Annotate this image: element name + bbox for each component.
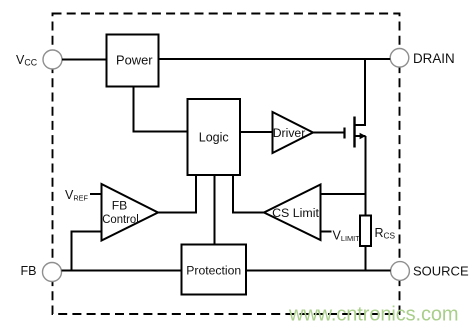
transistor Q1 MOSFET source arrow <box>360 133 366 140</box>
wire Driver tip to MOSFET gate <box>313 132 345 134</box>
pin FB circle <box>43 263 62 282</box>
amplifier Driver <box>273 112 314 153</box>
wire MOSFET drain vertical <box>355 59 366 125</box>
transistor Q1 MOSFET channel bar <box>353 117 355 148</box>
wire resistor bottom <box>365 246 367 272</box>
svg-text:FB: FB <box>21 264 37 278</box>
svg-text:Logic: Logic <box>199 131 229 145</box>
svg-text:DRAIN: DRAIN <box>413 51 455 66</box>
wire MOSFET source vertical to resistor <box>365 136 367 216</box>
block Power <box>107 35 159 87</box>
block Protection <box>182 245 247 295</box>
resistor RCS body <box>360 216 371 247</box>
svg-text:FB: FB <box>112 199 128 213</box>
transistor Q1 MOSFET drain tap <box>355 124 366 126</box>
wire FB Control tip to Logic <box>158 175 196 213</box>
wire CS Limit tip to Logic <box>233 175 264 213</box>
svg-text:Power: Power <box>116 53 153 68</box>
wire VCC to Power <box>62 59 107 61</box>
wire FB branch to FB Control <box>72 232 102 272</box>
wire Power bottom elbow to Logic <box>134 87 188 132</box>
IC boundary dashed border <box>53 14 400 315</box>
wire VREF stub <box>90 193 102 195</box>
amplifier FB Control <box>102 184 159 241</box>
svg-text:www.cntronics.com: www.cntronics.com <box>288 304 458 326</box>
pin SOURCE circle <box>391 262 410 281</box>
wire Logic to Driver <box>240 131 273 133</box>
transistor Q1 MOSFET source tap <box>355 135 366 137</box>
wire Protection to SOURCE <box>246 270 391 272</box>
svg-text:Driver: Driver <box>273 126 306 140</box>
svg-text:CS Limit: CS Limit <box>272 206 319 220</box>
svg-text:VLIMIT: VLIMIT <box>333 229 361 243</box>
wire CS Limit top input <box>321 193 366 195</box>
svg-text:VREF: VREF <box>65 188 88 202</box>
svg-text:SOURCE: SOURCE <box>413 264 469 279</box>
wire CS Limit Vlimit stub <box>321 231 332 233</box>
pin DRAIN circle <box>390 49 409 68</box>
wire Logic to Protection <box>214 175 216 245</box>
svg-text:VCC: VCC <box>16 53 38 67</box>
transistor Q1 MOSFET gate bar <box>343 128 345 139</box>
block Logic <box>188 99 241 175</box>
svg-text:Protection: Protection <box>186 264 241 278</box>
svg-text:RCS: RCS <box>375 226 396 240</box>
wire Power to DRAIN <box>159 58 391 60</box>
amplifier CS Limit <box>264 185 321 241</box>
svg-text:Control: Control <box>102 212 139 226</box>
wire FB rail <box>62 270 182 272</box>
pin VCC circle <box>43 50 62 69</box>
